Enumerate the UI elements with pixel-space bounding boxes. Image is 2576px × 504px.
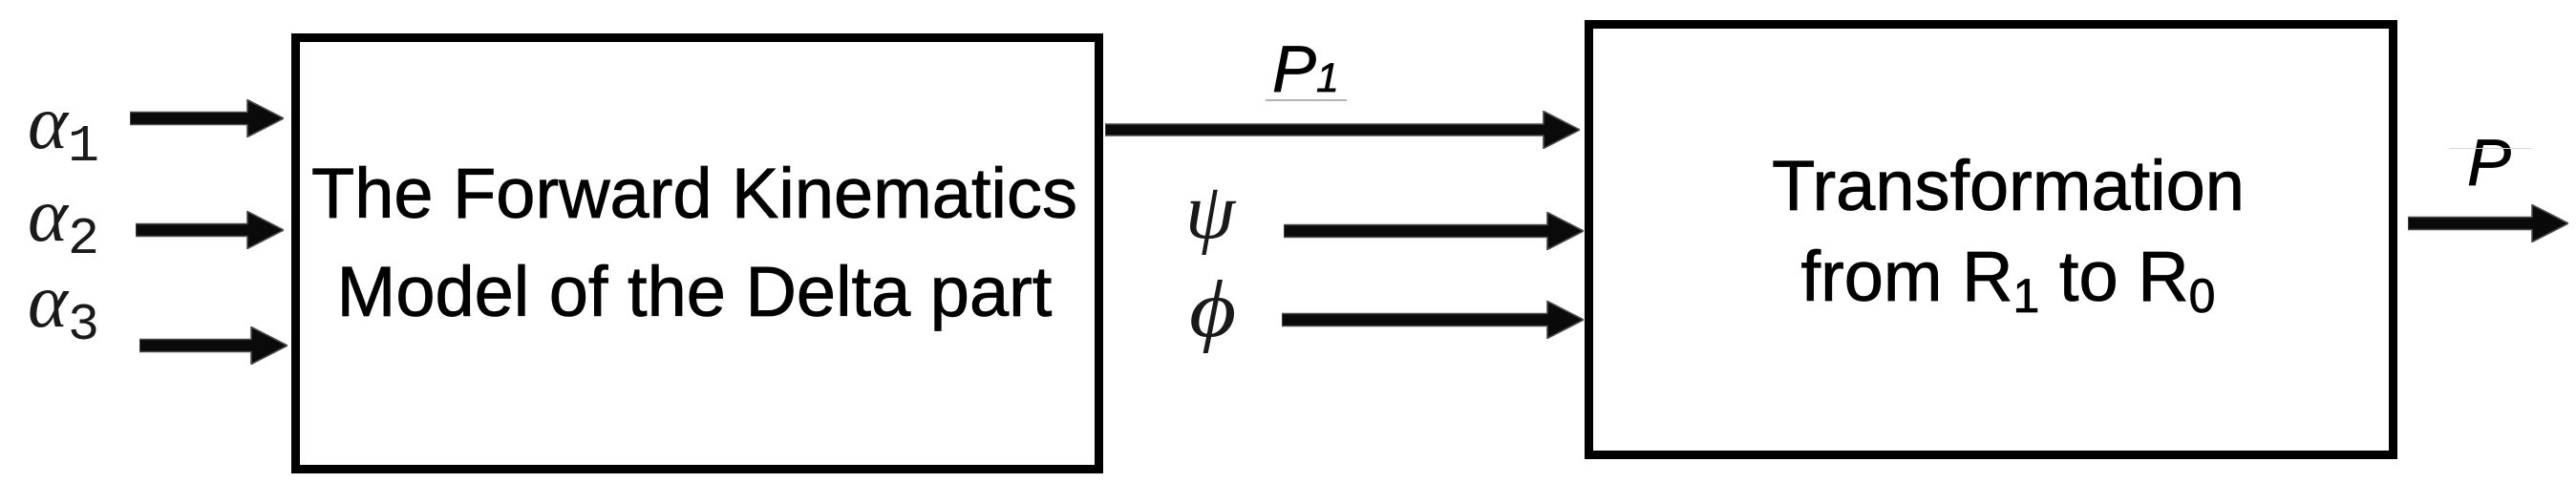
wire arrow P1 from B1 to B2 (1105, 111, 1580, 149)
label phi (1189, 269, 1236, 350)
wire arrow alpha3 into B1 (139, 326, 287, 365)
box B2: Transformation from R1 to R0 (1585, 20, 2397, 459)
wire arrow alpha2 into B1 (136, 211, 284, 249)
wire arrow phi into B2 (1282, 301, 1584, 339)
label B1 text (288, 144, 1100, 341)
box B1: The Forward Kinematics Model of the Delta part (291, 33, 1103, 473)
label P output (2467, 130, 2511, 196)
underline under P1 (1266, 99, 1347, 101)
label alpha2 (28, 178, 99, 265)
label alpha1 (28, 85, 99, 173)
faint line at P (2449, 148, 2531, 149)
label B2 text (1602, 140, 2415, 342)
wire arrow alpha1 into B1 (130, 99, 284, 137)
wire arrow P output from B2 (2408, 204, 2568, 242)
label alpha3 (28, 263, 99, 351)
label psi (1185, 172, 1235, 252)
wire arrow psi into B2 (1284, 212, 1584, 250)
label P1 (1272, 36, 1339, 102)
